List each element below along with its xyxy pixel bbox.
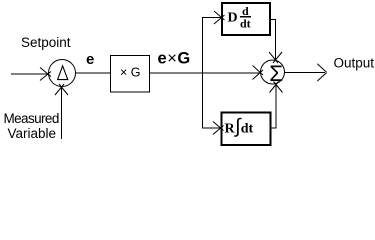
wire: comparator to gain box [76, 72, 111, 74]
wire: bottom branch to integral box [202, 127, 221, 129]
wire: branch vertical line [202, 18, 204, 129]
summing junction circle U1 (comparator) [49, 60, 76, 87]
svg-text:Measured: Measured [4, 111, 59, 126]
svg-text:Variable: Variable [8, 126, 57, 141]
gain box G [111, 56, 150, 93]
arrowhead up into comparator bottom [55, 84, 68, 95]
arrowhead into integral box [213, 122, 224, 135]
wire: output line [285, 72, 326, 74]
arrowhead up into sigma bottom [270, 82, 283, 93]
arrowhead into sigma left [253, 66, 264, 80]
wire: setpoint input line [11, 73, 48, 75]
fraction bar [240, 16, 251, 18]
integral box R∫dt [222, 113, 271, 146]
derivative box D d/dt [222, 3, 270, 35]
delta symbol inside comparator [58, 66, 68, 80]
svg-text:e: e [86, 51, 94, 68]
wire: measured variable vertical line [61, 88, 63, 139]
svg-text:× G: × G [120, 66, 141, 80]
wire: integral box output to sigma bottom [270, 85, 276, 129]
svg-text:Σ: Σ [269, 61, 283, 86]
svg-text:Output: Output [334, 55, 375, 70]
arrowhead into comparator (right) [40, 68, 51, 81]
svg-text:e×G: e×G [158, 50, 191, 68]
svg-text:D: D [228, 11, 238, 26]
svg-text:R: R [225, 122, 236, 137]
svg-text:Setpoint: Setpoint [21, 35, 71, 50]
wire: derivative box output to sigma top [270, 20, 276, 61]
arrowhead into derivative box [214, 11, 225, 24]
arrowhead down into sigma top [269, 52, 282, 63]
summing circle U2 (sigma) [261, 60, 285, 84]
wire: gain box to sigma (main horizontal) [149, 72, 261, 74]
svg-text:dt: dt [241, 122, 254, 137]
arrowhead output (open) [317, 64, 326, 81]
svg-text:dt: dt [240, 17, 251, 31]
wire: top branch to derivative box [202, 17, 222, 19]
